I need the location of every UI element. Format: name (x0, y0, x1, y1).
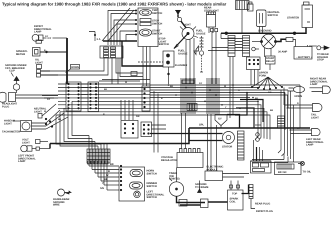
left handlebar switch housing (119, 167, 165, 201)
wire: vertical bundle from front lamp/speedo (66, 38, 68, 84)
svg-text:BK: BK (170, 85, 174, 88)
svg-text:GN: GN (100, 187, 104, 190)
svg-text:GY: GY (47, 98, 51, 101)
wire: left vertical bundle to lower harness (56, 101, 101, 146)
svg-text:GY: GY (297, 127, 301, 130)
svg-text:METER: METER (16, 53, 25, 56)
wires: between inline strips (208, 33, 248, 118)
svg-text:GAUGE: GAUGE (196, 32, 206, 35)
svg-text:BK GN: BK GN (278, 171, 286, 174)
svg-text:BE: BE (104, 178, 108, 181)
wires: rows between plugs (58, 84, 125, 108)
lamp: volt light (22, 139, 48, 145)
wire: speedometer feed (40, 51, 67, 53)
connector: indicator lamp plugs (37, 70, 59, 78)
speedometer (16, 48, 40, 57)
wires: connector down to main harness (50, 47, 163, 87)
wires: right mid verticals to lower boxes (255, 137, 261, 140)
wires: left gauge fan-out (42, 96, 68, 130)
lamp: oil light (35, 40, 43, 69)
svg-text:TACHOMETER: TACHOMETER (2, 131, 20, 134)
svg-text:RELAY: RELAY (266, 60, 275, 63)
horn tag (66, 65, 80, 73)
main harness band lower (staircase runs) (56, 101, 270, 139)
starter solenoid (258, 30, 277, 49)
wires: neutral switch leads and starter to battery (252, 27, 296, 58)
wire labels scattered (44, 35, 301, 130)
wires: junction nest right-center (235, 93, 263, 129)
timer (points) (169, 168, 184, 197)
right handlebar switch housing (138, 8, 169, 47)
svg-text:LAMP: LAMP (34, 31, 42, 34)
ground under circuit breaker clip label (5, 64, 27, 77)
handlebar ground wire (53, 189, 71, 207)
connector: rear harness strip (278, 116, 285, 128)
svg-text:BE: BE (270, 109, 274, 112)
terminal: gauge bullet connectors (45, 118, 53, 127)
connector: main handlebar connector block (100, 46, 123, 58)
junction box top-right corner (236, 1, 250, 10)
svg-text:COIL: COIL (230, 200, 237, 203)
circuit breaker at headlamp (13, 84, 19, 93)
svg-text:GY: GY (218, 118, 222, 121)
svg-text:SWITCH: SWITCH (268, 14, 278, 17)
svg-text:FLASHER: FLASHER (175, 64, 187, 67)
connector: small plugs atop left switch bundle (88, 161, 109, 164)
rear stoplight switch (204, 7, 219, 34)
wire: timer to coil bundle (thick) (177, 196, 228, 205)
connector: inline strip upper mid-right (228, 36, 235, 57)
svg-text:SWITCH: SWITCH (147, 172, 157, 175)
connector: inline strip 2 (243, 36, 250, 57)
svg-text:BK: BK (255, 97, 259, 100)
voltage regulator (161, 149, 203, 168)
canister: ignition circuit breaker (248, 2, 254, 11)
lamp: tail lamp (285, 104, 323, 120)
lamp: left rear directional (290, 129, 325, 147)
svg-text:BE: BE (58, 118, 62, 121)
svg-text:REAR PLUG: REAR PLUG (255, 203, 270, 206)
svg-text:SWITCH: SWITCH (152, 12, 162, 15)
spark coil (228, 181, 244, 211)
svg-text:STOP: STOP (317, 59, 324, 62)
svg-text:STARTER: STARTER (287, 17, 299, 20)
svg-text:POINTS): POINTS) (169, 178, 180, 181)
terminal: battery fuse holder (278, 46, 329, 54)
tachometer (2, 121, 46, 134)
lamp: right front directional lamp (32, 25, 52, 41)
wires: bundle down to left switch stubs (89, 136, 107, 191)
neutral switch (257, 10, 281, 27)
svg-text:- BATTERY +: - BATTERY + (297, 56, 313, 59)
wire: thick main feed lower (50, 128, 310, 149)
connector: timer lead plugs (179, 199, 208, 208)
svg-text:LIGHT: LIGHT (34, 110, 42, 113)
svg-text:30 AMP: 30 AMP (278, 51, 288, 54)
svg-text:LIGHT: LIGHT (35, 61, 43, 64)
ignition-light switch (174, 10, 198, 48)
svg-text:LAMP: LAMP (306, 144, 314, 147)
wires: into bottom right boxes (251, 140, 272, 161)
svg-text:TO FRAME: TO FRAME (195, 186, 209, 189)
svg-text:SPL: SPL (199, 124, 204, 127)
svg-text:B: B (108, 170, 110, 173)
flasher (163, 51, 187, 84)
svg-text:HORN: HORN (71, 66, 79, 69)
start relay (266, 56, 276, 64)
connector: instrument plug A (66, 82, 81, 111)
svg-text:LAMP: LAMP (310, 83, 318, 86)
wire: front directional to harness, label GY (43, 37, 67, 40)
svg-text:REGULATOR: REGULATOR (161, 159, 177, 162)
svg-text:LIGHT: LIGHT (22, 141, 30, 144)
svg-text:BK: BK (104, 88, 108, 91)
fuel gauge sender (178, 30, 206, 56)
wires: ignition and stoplight drops to harness (186, 10, 242, 84)
svg-text:SWITCH: SWITCH (147, 185, 157, 188)
wires: right switch stubs to harness (89, 8, 137, 45)
connector: lower harness block B (141, 122, 152, 137)
connector: lower harness block A (121, 121, 138, 139)
wires: centre vertical drop to left switch (121, 100, 133, 120)
ground: headlamp ground (14, 77, 19, 85)
horn (289, 86, 305, 98)
wires: right rear bundle vertical (278, 85, 300, 162)
svg-text:WIRE: WIRE (53, 204, 60, 207)
wires: left switch stub leads with labels (89, 163, 122, 191)
headlamp (0, 92, 58, 108)
ground to frame (195, 181, 209, 193)
wires: drops to voltage regulator (154, 91, 186, 153)
junction boxes bottom right (251, 161, 272, 173)
svg-text:STATOR: STATOR (222, 146, 232, 149)
svg-text:SOLENOID: SOLENOID (258, 30, 272, 33)
terminal: bullet connectors right (255, 125, 261, 141)
svg-text:LAMP: LAMP (18, 160, 26, 163)
ground: upper fork bracket (251, 72, 282, 90)
lamp: left front directional lamp (18, 145, 50, 163)
wires: crossing bundle 2 (207, 78, 219, 114)
svg-text:GN: GN (136, 115, 140, 118)
connector: frame harness strip (142, 86, 150, 111)
svg-text:TO OIL: TO OIL (303, 171, 312, 174)
wire: solenoid to starter (thick) (221, 28, 306, 42)
wire: stator feed (thick) (150, 130, 223, 141)
svg-text:SWITCH: SWITCH (152, 22, 162, 25)
svg-text:FORK: FORK (259, 74, 266, 77)
svg-text:Typical wiring diagram for 198: Typical wiring diagram for 1980 through … (2, 2, 227, 7)
main harness band left (node B) (58, 80, 150, 98)
svg-text:LIGHT: LIGHT (4, 122, 12, 125)
svg-text:HORN: HORN (295, 95, 303, 98)
battery (294, 45, 329, 62)
connector: left handlebar cross-hatch block (87, 149, 110, 163)
svg-text:TOP: TOP (232, 193, 238, 196)
starter (287, 2, 313, 28)
connector: harness inline plug (182, 80, 194, 84)
svg-text:3 A: 3 A (97, 38, 101, 41)
wires: crossing bundle 1 (181, 78, 195, 114)
svg-text:Y: Y (102, 182, 104, 185)
terminal block with fuses (247, 57, 261, 70)
stator (222, 132, 235, 149)
wires: battery and relay drops (251, 64, 270, 85)
regulator connector box bottom right (275, 162, 312, 175)
main harness band right (150, 85, 300, 98)
splice tag (199, 115, 240, 129)
svg-text:SWITCH: SWITCH (159, 43, 169, 46)
connector: harness junction block (187, 104, 197, 111)
wires: lower block outputs right (152, 125, 167, 129)
svg-text:GY: GY (45, 35, 49, 38)
svg-text:SWITCH: SWITCH (152, 32, 162, 35)
fuel tank sender lead (200, 55, 203, 72)
connector: instrument plug B (88, 82, 99, 112)
connector: engine harness strip (238, 131, 245, 160)
spark plug labels (251, 199, 273, 213)
svg-text:LIGHT: LIGHT (183, 24, 191, 27)
lamp: hi-beam indicator (4, 120, 20, 126)
spark plug cable duct (242, 185, 254, 199)
lamp: right rear directional (310, 78, 331, 94)
junction dots on harness rows (168, 84, 259, 109)
svg-text:CLIP: CLIP (9, 70, 15, 73)
connector: solenoid terminal (286, 38, 293, 42)
svg-text:PLUG: PLUG (2, 105, 9, 108)
svg-text:GY: GY (199, 82, 203, 85)
svg-text:GN: GN (268, 91, 272, 94)
svg-text:BK: BK (110, 163, 114, 166)
wire: thick feed across top of connector (103, 41, 137, 58)
electronic module (205, 114, 249, 181)
svg-text:SWITCH: SWITCH (147, 196, 157, 199)
svg-text:LIGHT: LIGHT (311, 116, 319, 119)
svg-text:FRONT PLUG: FRONT PLUG (256, 210, 273, 213)
lamp: neutral indicator (34, 108, 47, 119)
wires: lower right horizontals (252, 154, 288, 163)
